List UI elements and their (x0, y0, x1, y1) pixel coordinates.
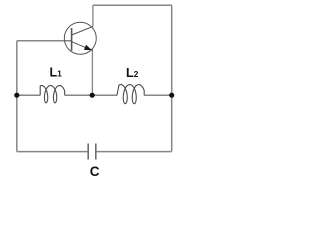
label L2 (126, 66, 139, 80)
wire: base horizontal from left corner to transistor (17, 40, 65, 42)
wire: right vertical (171, 5, 173, 151)
inductor L1 (40, 86, 64, 103)
wire: left vertical (16, 41, 18, 152)
wire: middle right segment (144, 94, 172, 96)
capacitor C (88, 144, 96, 160)
wire: bottom right segment (96, 151, 172, 153)
svg-text:L2: L2 (126, 66, 139, 80)
label C (90, 164, 100, 179)
node: left junction (14, 93, 19, 98)
label L1 (50, 66, 63, 80)
wire: top horizontal (93, 4, 172, 6)
inductor L2 (117, 85, 144, 104)
transistor (64, 22, 96, 54)
wire: emitter vertical (91, 49, 93, 95)
wire: middle center segment (65, 94, 117, 96)
wire: middle left segment (17, 94, 40, 96)
wire: bottom left segment (17, 151, 88, 153)
node: right junction (169, 93, 174, 98)
svg-text:C: C (90, 164, 100, 179)
node: middle junction (90, 93, 95, 98)
wire: collector vertical (92, 5, 94, 26)
svg-text:L1: L1 (50, 66, 63, 80)
